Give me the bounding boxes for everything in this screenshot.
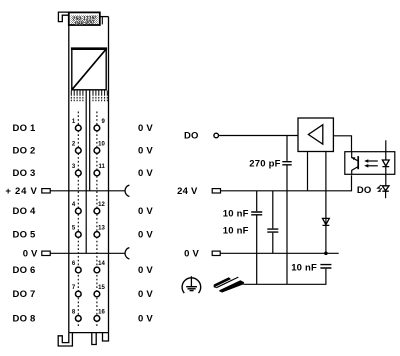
phototransistor Q1 [352, 152, 358, 161]
0V jumper socket arc [125, 248, 129, 259]
driver U1 triangle [308, 125, 322, 145]
svg-text:0 V: 0 V [138, 289, 153, 300]
svg-text:14: 14 [98, 261, 105, 267]
terminal dashed column left [77, 112, 79, 329]
wire C3 branch [272, 191, 274, 254]
terminal contact 10 [94, 148, 100, 154]
electronics diagonal [72, 49, 106, 90]
svg-text:3: 3 [72, 164, 76, 170]
svg-text:24 V: 24 V [177, 186, 198, 197]
label text 750-1315 [72, 15, 96, 26]
svg-text:10 nF: 10 nF [223, 209, 249, 220]
optocoupler box [345, 152, 395, 175]
terminal contact 5 [75, 232, 81, 238]
svg-text:1: 1 [72, 119, 76, 125]
svg-text:8: 8 [72, 310, 76, 316]
wire DO input [219, 135, 298, 137]
wire C4 to shield [243, 269, 326, 285]
svg-text:7: 7 [72, 285, 76, 291]
terminal contact 15 [94, 291, 100, 297]
+24V jumper socket arc [125, 185, 129, 196]
pin contact dashes right [93, 97, 107, 101]
svg-text:0 V: 0 V [184, 249, 199, 260]
wire 0V jumper [50, 252, 125, 254]
svg-text:DO 1: DO 1 [13, 123, 36, 134]
LED emission arrows [379, 185, 381, 186]
svg-text:0 V: 0 V [138, 230, 153, 241]
24V terminal [212, 189, 220, 193]
svg-text:0 V: 0 V [138, 168, 153, 179]
DIN rail shield symbol [214, 277, 245, 293]
left mounting foot [58, 333, 72, 346]
svg-text:DO 2: DO 2 [13, 146, 36, 157]
DO input terminal [214, 133, 219, 138]
terminal contact 7 [75, 291, 81, 297]
svg-text:0 V: 0 V [138, 123, 153, 134]
terminal contact 13 [94, 232, 100, 238]
light arrows [367, 160, 378, 162]
module body outline [68, 25, 70, 332]
center mounting foot [92, 333, 96, 345]
internal bus bar right [89, 90, 91, 191]
right mounting foot [103, 333, 109, 341]
svg-text:11: 11 [98, 164, 105, 170]
svg-text:10 nF: 10 nF [223, 226, 249, 237]
capacitor C3 10 nF [267, 229, 278, 232]
svg-text:DO 4: DO 4 [13, 206, 36, 217]
svg-text:DO 8: DO 8 [13, 314, 36, 325]
svg-text:6: 6 [72, 261, 76, 267]
connector pins right group [93, 91, 107, 96]
terminal contact 9 [94, 125, 100, 131]
order number label box [69, 12, 100, 25]
diode D1 [323, 218, 330, 225]
svg-text:9: 9 [101, 119, 105, 125]
wire driver supply pin [307, 152, 309, 191]
pin contact dashes left [71, 97, 83, 101]
electronics block top edge bold [71, 47, 107, 50]
+24V jumper contact terminal [42, 189, 50, 193]
svg-text:0 V: 0 V [138, 265, 153, 276]
wire 24V rail [221, 175, 352, 191]
svg-text:DO 7: DO 7 [13, 289, 36, 300]
terminal contact 12 [94, 208, 100, 214]
indicator LED DO [382, 186, 389, 191]
wire driver output [333, 136, 351, 152]
junction node [324, 252, 328, 256]
svg-text:2: 2 [72, 142, 76, 148]
module top right shoulder [100, 16, 109, 18]
capacitor C4 10 nF [320, 265, 331, 268]
0V jumper contact terminal [42, 251, 50, 255]
svg-text:+ 24 V: + 24 V [5, 186, 37, 197]
terminal contact 2 [75, 148, 81, 154]
terminal contact 16 [94, 316, 100, 322]
svg-text:13: 13 [98, 226, 105, 232]
capacitor C1 270 pF [282, 162, 291, 165]
terminal contact 1 [75, 125, 81, 131]
svg-text:DO 6: DO 6 [13, 265, 36, 276]
svg-text:10 nF: 10 nF [291, 263, 317, 274]
connector pins left group [71, 91, 83, 96]
terminal contact 11 [94, 170, 100, 176]
svg-text:12: 12 [98, 202, 105, 208]
terminal contact 8 [75, 316, 81, 322]
internal bus bar left [85, 90, 87, 254]
label hatch fill [71, 15, 99, 24]
svg-text:DO: DO [357, 185, 372, 196]
svg-text:270 pF: 270 pF [249, 159, 280, 170]
earth symbol [190, 276, 192, 286]
svg-text:0 V: 0 V [138, 314, 153, 325]
svg-text:DO 5: DO 5 [13, 230, 36, 241]
wire C2 branch [256, 191, 258, 284]
terminal dashed column right [96, 112, 98, 329]
svg-text:DO: DO [184, 131, 199, 142]
electronics block [72, 49, 106, 90]
module top latch hook [58, 12, 68, 22]
svg-text:10: 10 [98, 142, 105, 148]
svg-text:0 V: 0 V [138, 146, 153, 157]
terminal contact 3 [75, 170, 81, 176]
terminal contact 6 [75, 267, 81, 273]
0V terminal [212, 251, 220, 255]
wire driver to diode branch [325, 152, 327, 254]
svg-text:5: 5 [72, 226, 76, 232]
svg-text:0 V: 0 V [23, 249, 38, 260]
terminal contact 4 [75, 208, 81, 214]
svg-text:0 V: 0 V [138, 206, 153, 217]
svg-text:040-000: 040-000 [75, 19, 94, 26]
wire 0V rail [220, 252, 339, 254]
svg-text:15: 15 [98, 285, 105, 291]
terminal contact 14 [94, 267, 100, 273]
optocoupler LED [385, 140, 387, 160]
svg-text:16: 16 [98, 310, 105, 316]
svg-text:DO 3: DO 3 [13, 168, 36, 179]
wire C1 drop to earth [286, 136, 288, 285]
capacitor C2 10 nF [251, 212, 262, 215]
driver U1 box [298, 118, 333, 152]
svg-text:4: 4 [72, 202, 76, 208]
wire +24V jumper [50, 190, 125, 192]
